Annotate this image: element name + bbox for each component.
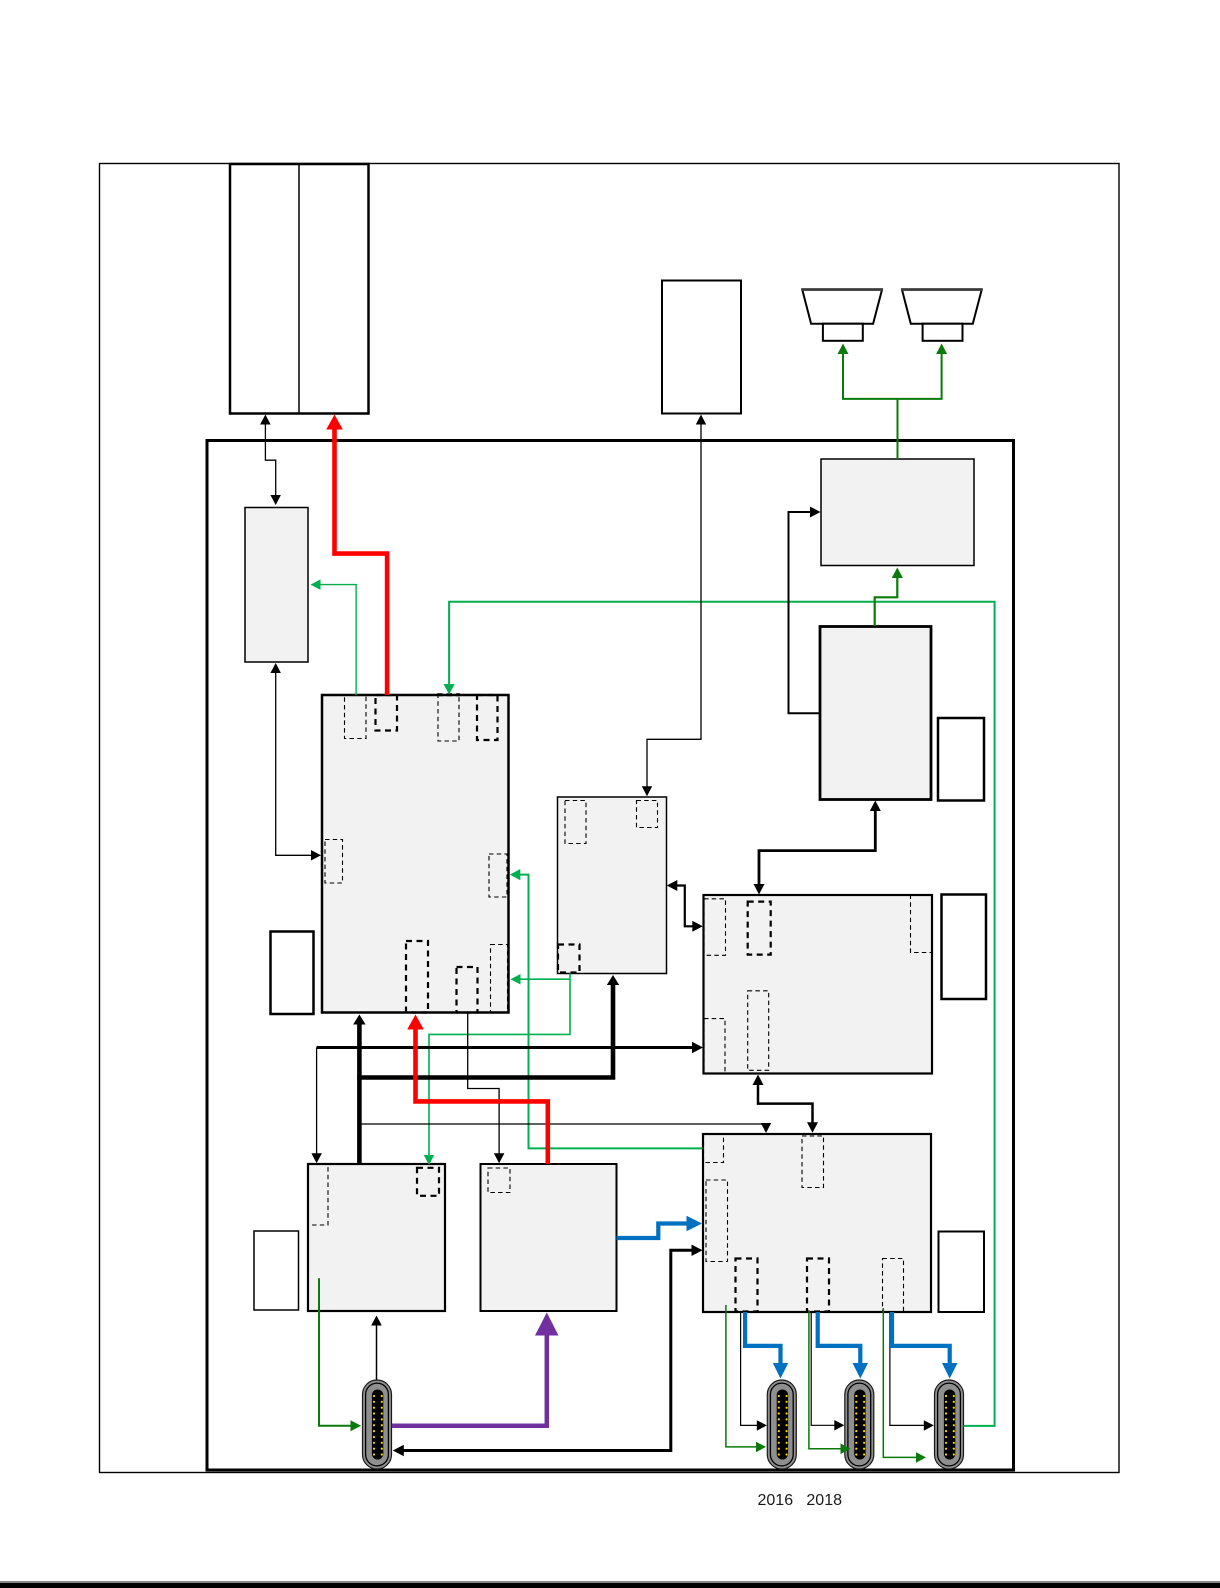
wire: USBctl to J2 CC — [811, 1313, 835, 1425]
motherboard boundary — [207, 441, 1014, 1471]
wire: SoC to PD2 — [468, 1014, 499, 1155]
port: hub top-left2 — [748, 902, 771, 955]
block: audio amplifier — [821, 459, 974, 566]
wire: PD1 to SoC (power) — [357, 1023, 362, 1164]
USB-C connector J2 — [845, 1380, 874, 1469]
wire: USBctl to J2 (blue) — [818, 1312, 861, 1364]
wire: USB controller to J0 — [403, 1250, 693, 1450]
port: hub top-left — [704, 899, 726, 956]
USB-C connector J0 — [363, 1380, 392, 1469]
wire: bus to USB controller top — [361, 1123, 767, 1125]
block: battery pack (two cells) — [230, 164, 369, 414]
wire: hub to USB controller — [758, 1084, 813, 1124]
wire: amp to speakers — [843, 353, 942, 399]
port: EC bottom-left — [558, 945, 580, 973]
wire: display to EC — [647, 423, 701, 787]
block: aux right of wireless — [938, 718, 984, 801]
wire: USBctl to J1 sideband — [726, 1305, 757, 1447]
wire: amp stem — [897, 399, 899, 459]
port c bold top dashes — [437, 693, 460, 696]
USB-C connector J1 — [767, 1380, 796, 1469]
block: PD controller 1 — [308, 1164, 445, 1311]
wire: USBctl to J3 (blue) — [892, 1312, 950, 1364]
wire: PD1 to J0 (dark green) — [319, 1278, 352, 1426]
port: SoC bottom a — [406, 941, 428, 1013]
wire: USB-C J0 to PD1 — [376, 1324, 378, 1380]
block: display panel — [662, 281, 741, 414]
wire: power rail to battery (red) — [335, 428, 388, 695]
port: SoC top c — [438, 695, 459, 741]
wire: USBctl to J1 CC — [741, 1312, 758, 1425]
bottom page edge strip — [0, 1583, 1220, 1588]
wire: USBctl to SoC right (green) — [519, 875, 702, 1149]
block: USB controller (bottom right) — [703, 1134, 931, 1312]
port: SoC top a — [345, 695, 367, 739]
port: hub top-right — [911, 895, 933, 953]
port: USBctl top-left — [704, 1135, 724, 1163]
wire: bus to hub left — [317, 1046, 694, 1049]
wire: J3 loop to SoC top (green) — [449, 602, 995, 1426]
wire: junction down to PD1 — [316, 1048, 318, 1155]
block: aux right of hub — [942, 895, 987, 1000]
port: USBctl top-mid — [802, 1136, 824, 1188]
port: PD2 top-left — [488, 1168, 510, 1193]
wire: EC to hub — [676, 886, 693, 927]
wire: battery to charger — [265, 423, 275, 496]
wire: wireless to amp (audio) — [875, 577, 898, 626]
wire: charger to SoC left — [276, 672, 313, 856]
port: EC top-right — [637, 801, 658, 828]
wire: J0 to PD2 (purple) — [392, 1334, 547, 1425]
port: hub bottom-left — [704, 1019, 725, 1074]
wire: EC port to PD1 (green) — [429, 974, 570, 1157]
port: SoC bottom b — [457, 967, 478, 1013]
port: SoC bottom c — [491, 945, 508, 1013]
wire: USBctl to J2 sideband — [809, 1311, 842, 1449]
port: EC top-left — [565, 801, 586, 844]
port: USBctl bottom b — [807, 1259, 829, 1312]
outer page frame — [100, 164, 1120, 1473]
port: USBctl bottom a — [736, 1259, 758, 1312]
block: embedded controller — [558, 797, 667, 974]
block: PD controller 2 — [481, 1164, 617, 1311]
wire: USBctl to J1 (blue) — [745, 1312, 780, 1364]
svg-text:2018: 2018 — [806, 1492, 842, 1509]
wire: wireless to audio amp — [789, 512, 821, 713]
block: SoC / CPU U1 — [322, 695, 509, 1013]
port: USBctl bottom c — [883, 1259, 904, 1312]
battery divider — [298, 164, 300, 414]
speaker 2 — [902, 290, 982, 324]
port: SoC top b — [376, 695, 398, 731]
block: aux bottom right — [939, 1232, 985, 1313]
port: hub mid — [748, 991, 769, 1071]
port: SoC left — [325, 840, 343, 884]
wire: power rail SoC to PD2 (red) — [416, 1028, 548, 1164]
port: USBctl left — [706, 1180, 728, 1262]
svg-text:2016: 2016 — [758, 1492, 794, 1509]
wire: wireless to hub — [759, 810, 875, 885]
wire: EC port to SoC right (green) — [519, 978, 570, 980]
wire: PD2 to USB controller (blue) — [617, 1224, 688, 1239]
wire: USBctl to J3 CC — [890, 1313, 925, 1425]
USB-C connector J3 — [935, 1380, 964, 1469]
port: PD1 top-left — [308, 1164, 328, 1225]
port: PD1 top-right — [417, 1168, 439, 1196]
block: hub controller (mid right) — [704, 895, 933, 1074]
speaker 1 — [802, 290, 882, 324]
wire: USBctl to J3 sideband — [883, 1308, 917, 1457]
port: SoC right — [489, 854, 507, 897]
port: SoC top d — [477, 695, 498, 740]
block: wireless module — [820, 627, 931, 800]
block: charger IC — [245, 508, 308, 663]
wire: SoC to charger (green) — [319, 585, 356, 695]
block: aux bottom left — [254, 1231, 299, 1310]
block: aux left of SoC — [271, 932, 314, 1015]
wire: power branch to EC — [357, 984, 613, 1078]
